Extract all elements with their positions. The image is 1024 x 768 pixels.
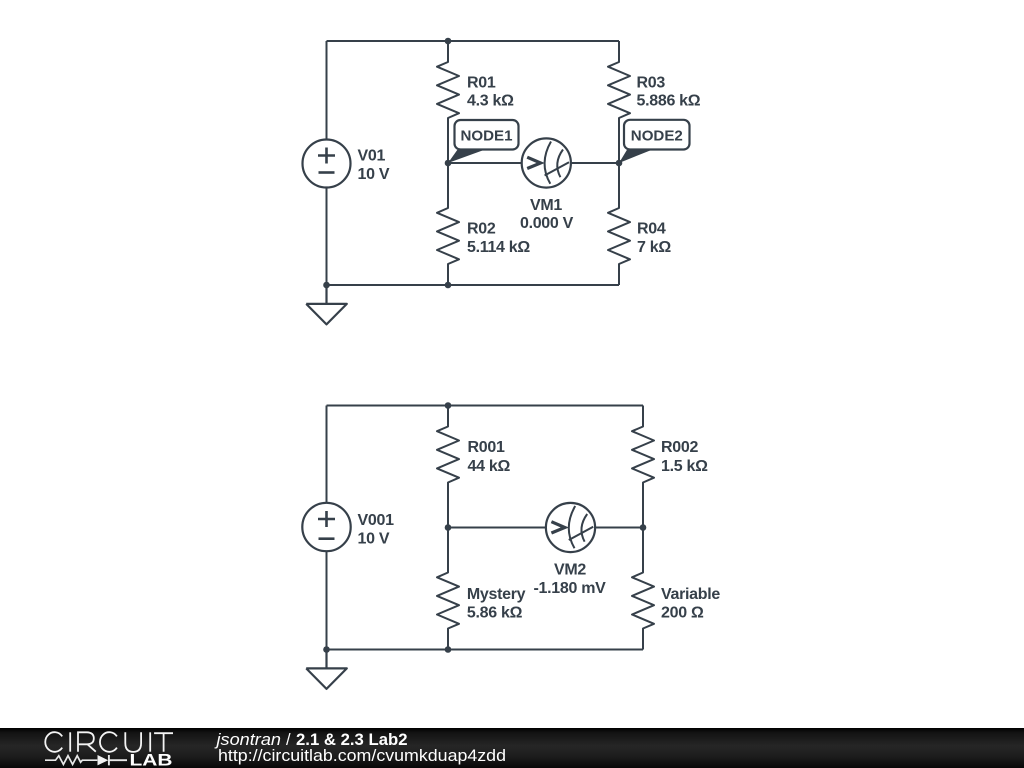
voltage source V001: [302, 503, 350, 551]
wire bottom rail circuit 2: [327, 649, 644, 651]
svg-text:R02: R02: [467, 221, 496, 238]
wire bottom rail circuit 1: [327, 284, 620, 286]
resistor R001: [437, 406, 459, 528]
node dot bottom mid c2: [445, 646, 452, 653]
resistor R03: [608, 41, 630, 163]
svg-text:5.114 kΩ: 5.114 kΩ: [467, 239, 530, 256]
svg-text:R03: R03: [637, 75, 666, 92]
svg-text:44 kΩ: 44 kΩ: [468, 458, 511, 475]
wire left rail lower circuit 1: [326, 188, 328, 286]
svg-text:Variable: Variable: [661, 586, 720, 603]
svg-text:http://circuitlab.com/cvumkdua: http://circuitlab.com/cvumkduap4zdd: [218, 747, 506, 765]
svg-text:R04: R04: [637, 221, 666, 238]
svg-text:R01: R01: [467, 75, 496, 92]
svg-text:5.886 kΩ: 5.886 kΩ: [637, 92, 701, 109]
resistor Mystery: [437, 528, 459, 650]
voltmeter VM2: [546, 503, 595, 552]
node dot NODE1: [445, 160, 452, 167]
resistor R002: [632, 406, 654, 528]
wire top rail circuit 1: [327, 40, 620, 42]
svg-text:-1.180 mV: -1.180 mV: [533, 580, 606, 597]
logo resistor-diode glyph: [45, 756, 97, 765]
wire left rail upper circuit 1: [326, 41, 328, 140]
footer bar: [0, 728, 1024, 768]
node dot bottom left c1: [323, 282, 330, 289]
node dot bottom mid c1: [445, 282, 452, 289]
svg-text:7 kΩ: 7 kΩ: [637, 239, 671, 256]
resistor R01: [437, 41, 459, 163]
wire VM2 to right rail: [595, 527, 643, 529]
resistor R02: [437, 163, 459, 285]
node dot NODE2: [616, 160, 623, 167]
svg-text:VM2: VM2: [554, 562, 586, 579]
wire left rail upper circuit 2: [326, 406, 328, 503]
wire top rail circuit 2: [327, 405, 644, 407]
svg-text:NODE1: NODE1: [461, 127, 513, 144]
node dot top rail c2: [445, 402, 452, 409]
svg-text:4.3 kΩ: 4.3 kΩ: [467, 92, 514, 109]
ground circuit 1: [306, 285, 347, 324]
resistor Variable: [632, 528, 654, 650]
ground circuit 2: [306, 650, 347, 689]
wire node1 to VM1: [448, 162, 522, 164]
svg-text:R001: R001: [468, 439, 505, 456]
svg-text:LAB: LAB: [130, 752, 173, 768]
svg-text:R002: R002: [661, 439, 698, 456]
logo CIRCUIT wordmark: [45, 732, 173, 752]
node label NODE2: [619, 120, 690, 163]
svg-text:1.5 kΩ: 1.5 kΩ: [661, 458, 708, 475]
svg-text:V01: V01: [358, 148, 386, 165]
node label NODE1: [448, 120, 519, 163]
svg-text:Mystery: Mystery: [467, 586, 526, 603]
node dot mid left c2: [445, 524, 452, 531]
wire left rail lower circuit 2: [326, 551, 328, 650]
svg-text:0.000 V: 0.000 V: [520, 215, 574, 232]
resistor R04: [608, 163, 630, 285]
svg-text:5.86 kΩ: 5.86 kΩ: [467, 605, 523, 622]
node dot top rail c1: [445, 38, 452, 45]
voltmeter VM1: [522, 138, 571, 187]
wire VM1 to node2: [571, 162, 619, 164]
node dot mid right c2: [640, 524, 647, 531]
svg-text:10 V: 10 V: [358, 166, 390, 183]
voltage source V01: [303, 140, 351, 188]
wire mid to VM2: [448, 527, 546, 529]
svg-text:VM1: VM1: [530, 197, 562, 214]
svg-text:NODE2: NODE2: [631, 127, 683, 144]
svg-text:V001: V001: [358, 512, 395, 529]
node dot bottom left c2: [323, 646, 330, 653]
svg-text:10 V: 10 V: [358, 531, 390, 548]
svg-text:200 Ω: 200 Ω: [661, 605, 704, 622]
